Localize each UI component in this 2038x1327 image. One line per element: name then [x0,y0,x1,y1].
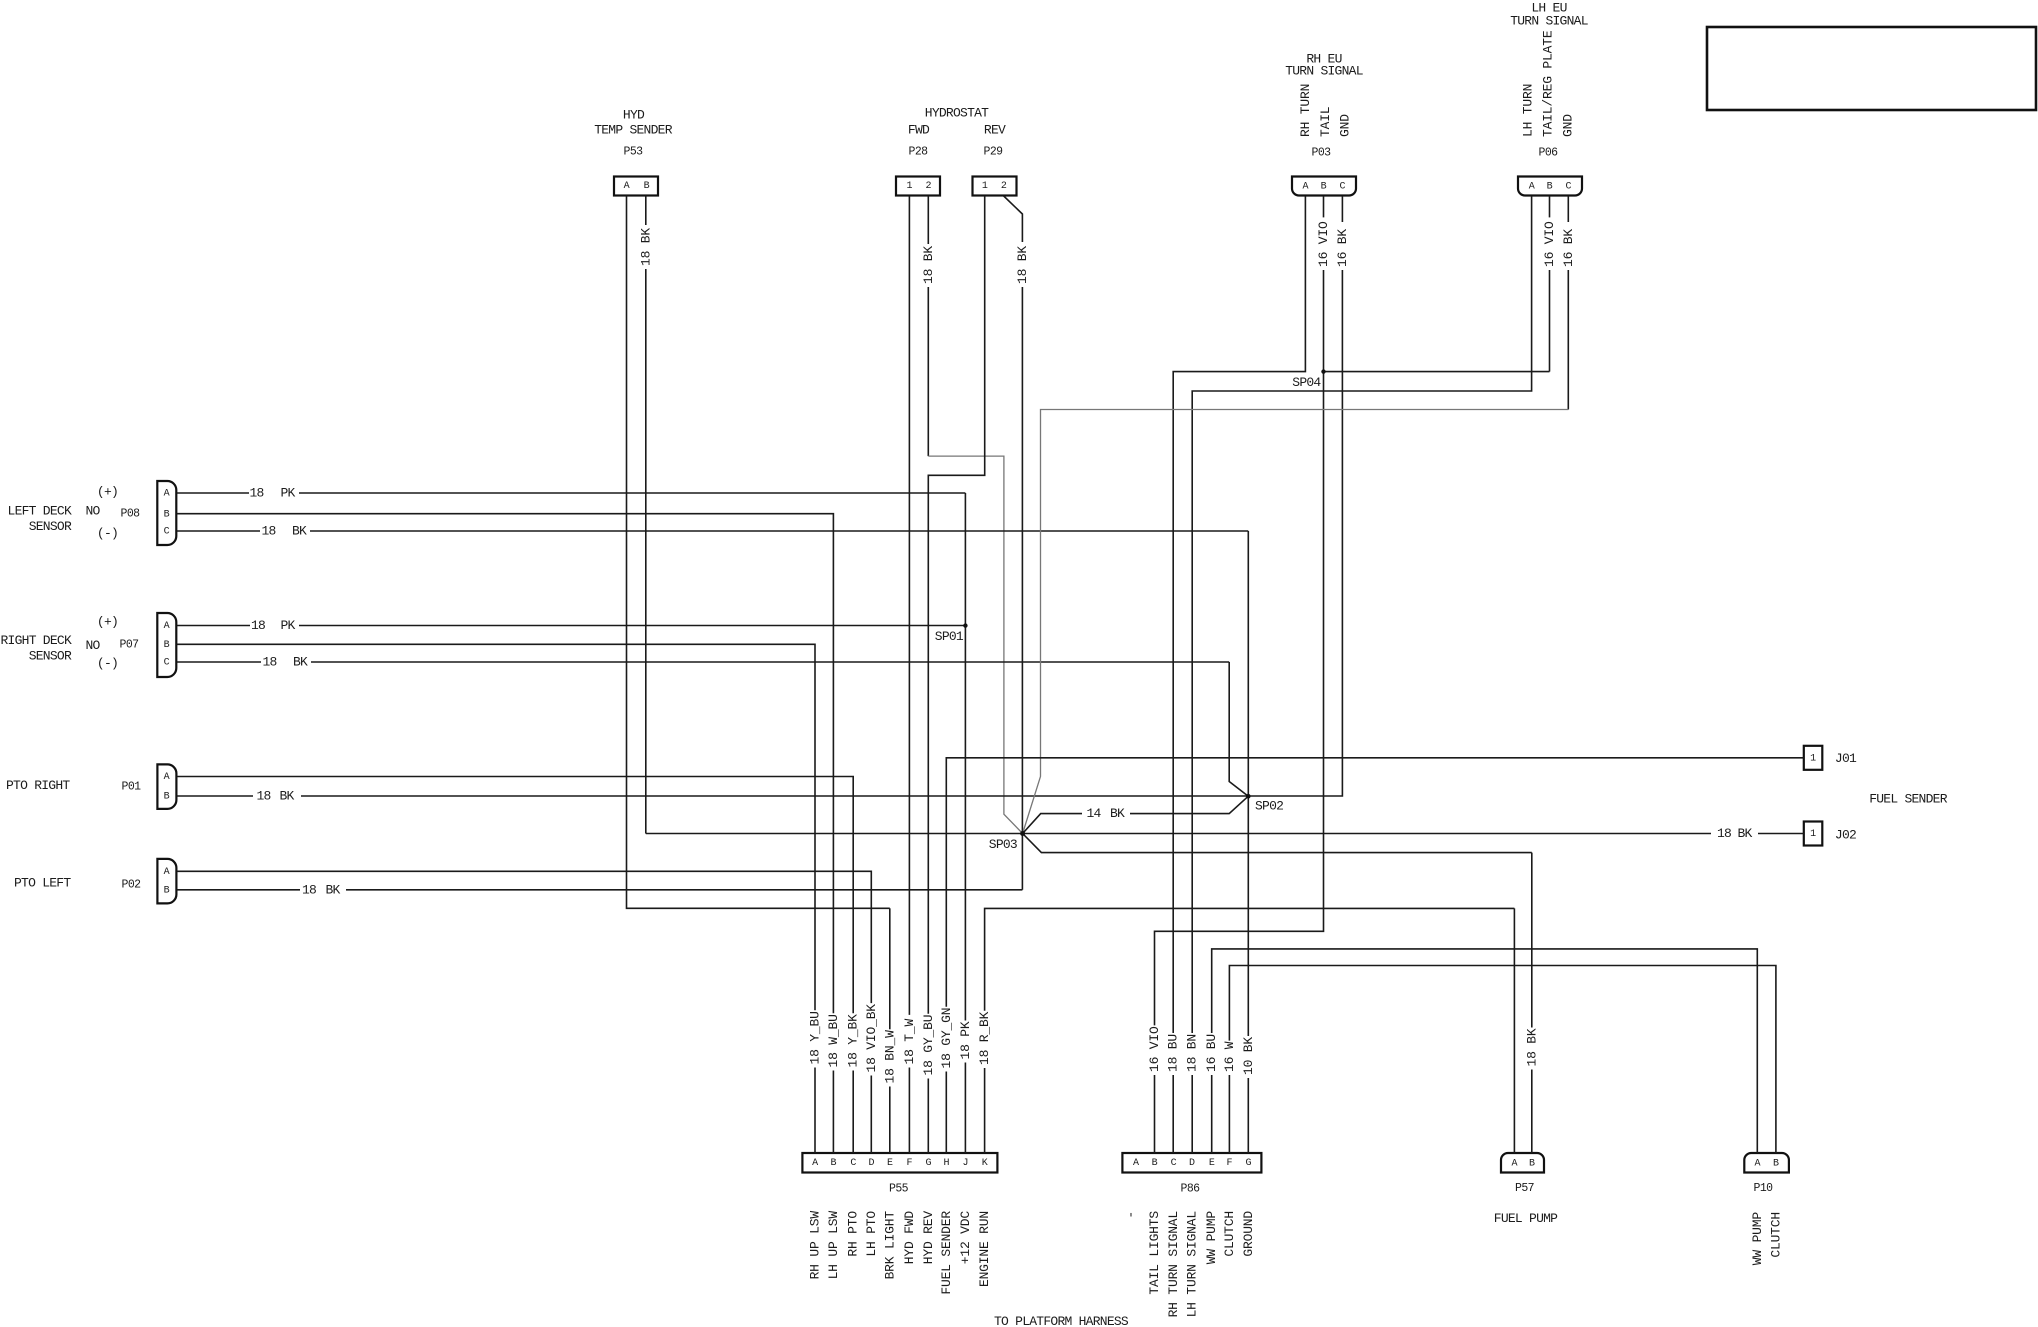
svg-text:J01: J01 [1835,751,1857,766]
svg-text:SP01: SP01 [935,629,964,644]
svg-text:B: B [164,885,170,896]
svg-text:HYD FWD: HYD FWD [902,1211,917,1265]
svg-text:18 R_BK: 18 R_BK [977,1011,992,1065]
svg-text:18: 18 [262,655,276,670]
wire P08-A 18 PK to SP01 [177,486,966,626]
svg-text:18 BK: 18 BK [1015,246,1030,284]
svg-text:18 BK: 18 BK [921,246,936,284]
svg-text:(+): (+) [97,615,118,630]
svg-text:P57: P57 [1515,1182,1534,1195]
svg-text:RIGHT DECK: RIGHT DECK [0,633,71,648]
svg-text:HYD: HYD [623,108,645,123]
svg-text:C: C [1171,1158,1177,1169]
svg-text:18 BU: 18 BU [1166,1034,1181,1072]
svg-text:GROUND: GROUND [1241,1211,1256,1257]
svg-text:B: B [164,640,170,651]
wire P86-F to P10-B (16 W CLUTCH) [1229,966,1776,1154]
svg-text:TO PLATFORM HARNESS: TO PLATFORM HARNESS [994,1314,1129,1327]
svg-text:P03: P03 [1311,147,1331,160]
svg-text:J02: J02 [1835,828,1856,843]
wire P55-H to J01 (18 GY_GN FUEL SENDER) [939,758,1804,1153]
connector J01 FUEL SENDER [1804,746,1857,770]
wire P06-C 16 BK to SP03 [1023,196,1576,834]
svg-text:18 PK: 18 PK [958,1021,973,1059]
svg-text:SP02: SP02 [1255,799,1283,814]
svg-text:A: A [812,1158,818,1169]
svg-text:BK: BK [279,789,294,804]
svg-text:A: A [1754,1159,1760,1170]
P86 pin function labels [1124,1211,1256,1318]
svg-text:18 GY_BU: 18 GY_BU [921,1015,936,1076]
svg-text:A: A [164,867,170,878]
svg-text:P07: P07 [119,639,138,652]
svg-text:SP03: SP03 [989,837,1017,852]
svg-text:16 VIO: 16 VIO [1147,1026,1162,1072]
wire SP03 to SP02 (14 BK) [1023,796,1249,833]
svg-text:B: B [1321,182,1327,193]
connector P86 [1122,1153,1261,1196]
svg-text:C: C [164,658,170,669]
svg-text:B: B [1152,1158,1158,1169]
svg-text:18 W_BU: 18 W_BU [826,1014,841,1067]
svg-text:LH PTO: LH PTO [864,1211,879,1257]
svg-text:C: C [850,1158,856,1169]
svg-text:SP04: SP04 [1292,375,1321,390]
svg-text:18: 18 [251,618,265,633]
connector J02 FUEL SENDER [1804,822,1856,846]
svg-text:E: E [1209,1158,1215,1169]
wire P28-2 18 BK to SP03 [921,196,1023,834]
svg-text:18 Y_BK: 18 Y_BK [846,1014,861,1068]
svg-text:18: 18 [249,486,263,501]
svg-text:B: B [164,791,170,802]
svg-text:18: 18 [302,882,316,897]
svg-text:16 BK: 16 BK [1335,229,1350,267]
wire P02-A to P55-D (18 VIO_BK LH PTO) [177,871,879,1153]
svg-text:2: 2 [925,181,931,192]
svg-text:A: A [1133,1158,1139,1169]
svg-text:A: A [624,181,630,192]
svg-text:(+): (+) [97,485,118,500]
svg-text:1: 1 [1810,753,1816,764]
wire SP04 to P86-B (16 VIO TAIL LIGHTS) [1147,372,1324,1153]
svg-text:16 BU: 16 BU [1204,1034,1219,1072]
svg-text:-: - [1124,1211,1139,1219]
wire P01-A to P55-C (18 Y_BK RH PTO) [177,777,861,1154]
svg-text:A: A [164,772,170,783]
svg-text:FWD: FWD [908,123,930,138]
wire P28-1 to P55-F (18 T_W HYD FWD) [902,196,917,1153]
wire P03-C 16 BK to SP02 [1248,196,1350,796]
wire P03-A to P86-C (18 BU RH TURN SIGNAL) [1166,196,1306,1153]
svg-text:RH PTO: RH PTO [846,1211,861,1257]
wire SP01 to P55-J (18 PK +12 VDC) [958,626,973,1153]
svg-text:SENSOR: SENSOR [29,519,72,534]
svg-text:LH TURN SIGNAL: LH TURN SIGNAL [1184,1211,1199,1317]
svg-text:1: 1 [982,181,988,192]
svg-text:P29: P29 [983,146,1003,159]
svg-text:(-): (-) [97,656,118,671]
svg-text:E: E [887,1158,893,1169]
wire P07-C 18 BK to SP02 [177,655,1249,797]
connector P10 WW PUMP / CLUTCH [1744,1153,1789,1265]
svg-text:C: C [1565,182,1571,193]
connector P57 FUEL PUMP [1494,1153,1558,1226]
svg-text:G: G [1245,1158,1251,1169]
splice SP03 [989,831,1025,852]
svg-text:P06: P06 [1538,147,1558,160]
wire P55-K to P57-A (18 R_BK ENGINE RUN / FUEL PUMP) [977,908,1514,1153]
svg-text:16 W: 16 W [1222,1041,1237,1072]
wire P29-2 18 BK to P02-B [1004,196,1030,890]
svg-text:FUEL SENDER: FUEL SENDER [1869,792,1948,807]
wire P86-F label [1222,1041,1237,1153]
svg-text:TEMP SENDER: TEMP SENDER [594,123,673,138]
svg-text:18: 18 [261,524,275,539]
svg-text:TAIL: TAIL [1318,107,1333,137]
svg-text:B: B [644,181,650,192]
wire P06-B 16 VIO to SP04 [1542,196,1557,372]
svg-text:C: C [164,527,170,538]
splice SP02 [1246,794,1283,814]
svg-text:14: 14 [1086,806,1101,821]
svg-text:B: B [1773,1159,1779,1170]
svg-text:18 VIO_BK: 18 VIO_BK [864,1004,879,1073]
svg-text:P53: P53 [623,146,643,159]
svg-text:D: D [1189,1158,1195,1169]
wire P07-A 18 PK to SP01 [177,618,966,633]
svg-text:BK: BK [292,524,307,539]
svg-text:LH TURN: LH TURN [1521,84,1536,137]
wire P01-B 18 BK to SP02 [177,789,1249,804]
svg-text:RH TURN: RH TURN [1298,84,1313,137]
svg-text:18 BK: 18 BK [1524,1028,1539,1066]
svg-text:RH UP LSW: RH UP LSW [808,1211,823,1280]
wire P53-B 18 BK to SP03/J02 rail [638,196,653,834]
svg-text:J: J [963,1158,969,1169]
svg-text:A: A [164,489,170,500]
svg-text:LH UP LSW: LH UP LSW [826,1211,841,1280]
svg-text:LEFT DECK: LEFT DECK [8,504,72,519]
connector P28 HYDROSTAT FWD [896,106,989,196]
connector P02 PTO LEFT [14,859,176,904]
svg-text:H: H [943,1158,949,1169]
svg-text:FUEL PUMP: FUEL PUMP [1494,1211,1558,1226]
wire P06-A to P86-D (18 BN LH TURN SIGNAL) [1185,196,1532,1153]
svg-text:BK: BK [1737,826,1752,841]
svg-text:18 GY_GN: 18 GY_GN [939,1008,954,1069]
svg-text:A: A [1512,1159,1518,1170]
label FUEL SENDER [1869,792,1948,807]
P55 pin function labels [808,1211,993,1295]
title block (empty) [1707,27,2036,110]
connector P29 HYDROSTAT REV [973,123,1017,196]
connector P55 TO PLATFORM HARNESS [802,1153,997,1196]
svg-text:PTO RIGHT: PTO RIGHT [6,778,70,793]
label TO PLATFORM HARNESS [994,1314,1129,1327]
svg-text:CLUTCH: CLUTCH [1222,1211,1237,1257]
svg-text:GND: GND [1561,114,1576,137]
svg-text:NO: NO [85,504,100,519]
svg-text:BK: BK [1110,806,1125,821]
svg-text:NO: NO [85,638,100,653]
svg-text:BK: BK [293,655,308,670]
svg-text:P86: P86 [1180,1183,1200,1196]
wire P53-A to P55-E (18 BN_W BRK LIGHT) [627,196,898,1154]
connector P08 LEFT DECK SENSOR [8,481,177,545]
connector P01 PTO RIGHT [6,764,176,809]
svg-text:B: B [831,1158,837,1169]
splice SP04 [1292,369,1325,390]
svg-text:(-): (-) [97,526,118,541]
svg-text:GND: GND [1338,114,1353,137]
svg-text:P10: P10 [1753,1182,1773,1195]
svg-text:TAIL/REG PLATE: TAIL/REG PLATE [1541,30,1556,137]
connector P07 RIGHT DECK SENSOR [0,613,176,677]
svg-text:P28: P28 [908,146,928,159]
svg-text:16 BK: 16 BK [1561,229,1576,267]
svg-text:FUEL SENDER: FUEL SENDER [939,1211,954,1295]
svg-text:A: A [164,621,170,632]
svg-text:16 VIO: 16 VIO [1542,221,1557,267]
wire SP04 splice rail 16 VIO [1324,371,1550,373]
svg-text:B: B [1547,182,1553,193]
svg-text:1: 1 [907,181,913,192]
svg-text:PTO LEFT: PTO LEFT [14,876,71,891]
svg-text:18 Y_BU: 18 Y_BU [808,1011,823,1064]
svg-text:RH TURN SIGNAL: RH TURN SIGNAL [1166,1211,1181,1317]
wire P02-B 18 BK [177,882,1023,897]
svg-text:TURN SIGNAL: TURN SIGNAL [1510,14,1588,29]
svg-text:K: K [982,1158,988,1169]
svg-text:WW PUMP: WW PUMP [1204,1211,1219,1265]
svg-text:10 BK: 10 BK [1241,1037,1256,1075]
svg-text:SENSOR: SENSOR [29,649,72,664]
svg-text:PK: PK [280,486,295,501]
svg-text:18: 18 [256,789,270,804]
svg-text:A: A [1529,182,1535,193]
svg-text:CLUTCH: CLUTCH [1768,1212,1783,1258]
svg-text:REV: REV [984,123,1006,138]
svg-text:BK: BK [325,882,340,897]
svg-text:HYD REV: HYD REV [921,1211,936,1265]
svg-text:B: B [1529,1159,1535,1170]
svg-text:P01: P01 [121,781,141,794]
svg-text:F: F [1227,1158,1233,1169]
wire P86-E label [1204,1034,1219,1153]
svg-text:+12 VDC: +12 VDC [958,1211,973,1265]
svg-text:18 BK: 18 BK [638,228,653,266]
svg-text:ENGINE RUN: ENGINE RUN [977,1211,992,1287]
svg-text:18: 18 [1717,826,1731,841]
svg-text:P08: P08 [120,508,140,521]
svg-text:WW PUMP: WW PUMP [1750,1212,1765,1266]
wire P86-E to P10-A (16 BU WW PUMP) [1212,949,1758,1153]
wire P03-B 16 VIO to SP04 [1316,196,1331,372]
wire P08-B to P55-B (18 W_BU LH UP LSW) [177,514,841,1153]
wire ground rail P53-B/SP03 to J02 (18 BK) [646,826,1804,841]
svg-text:G: G [925,1158,931,1169]
svg-text:TAIL LIGHTS: TAIL LIGHTS [1147,1211,1162,1295]
wire P29-1 to P55-G (18 GY_BU HYD REV) [921,196,985,1153]
splice SP01 [935,623,968,644]
svg-text:P02: P02 [121,879,141,892]
svg-text:P55: P55 [889,1183,909,1196]
svg-text:TURN SIGNAL: TURN SIGNAL [1285,64,1363,79]
svg-text:HYDROSTAT: HYDROSTAT [925,106,989,121]
svg-text:BRK LIGHT: BRK LIGHT [882,1211,897,1280]
svg-text:A: A [1303,182,1309,193]
wire SP03 to P57-B (18 BK) [1023,834,1540,1154]
svg-text:D: D [868,1158,874,1169]
connector P03 RH EU TURN SIGNAL [1285,52,1363,196]
svg-text:1: 1 [1810,829,1816,840]
svg-text:2: 2 [1001,181,1007,192]
svg-text:18 BN: 18 BN [1185,1034,1200,1072]
wire P08-C 18 BK to SP02/P86-G (10 BK GROUND) [177,524,1256,1154]
connector P06 LH EU TURN SIGNAL [1510,1,1588,196]
svg-text:18 T_W: 18 T_W [902,1018,917,1064]
svg-text:F: F [907,1158,913,1169]
svg-text:PK: PK [280,618,295,633]
svg-text:B: B [164,510,170,521]
svg-text:18 BN_W: 18 BN_W [882,1030,897,1084]
wire P07-B to P55-A (18 Y_BU RH UP LSW) [177,644,823,1153]
svg-text:16 VIO: 16 VIO [1316,221,1331,267]
connector P53 HYD TEMP SENDER [594,108,673,196]
svg-text:C: C [1340,182,1346,193]
